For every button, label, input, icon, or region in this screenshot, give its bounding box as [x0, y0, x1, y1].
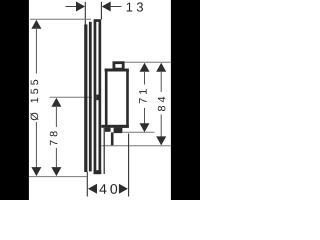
- dim 71 lower segment: [144, 108, 146, 125]
- ext line plate top: [30, 18, 91, 20]
- left black panel: [0, 0, 29, 200]
- housing bottom cap: [94, 170, 102, 174]
- dim 40 tick right: [128, 134, 130, 197]
- carrier sleeve: [89, 22, 92, 172]
- valve box bottom band: [101, 125, 129, 128]
- dim 13 arrow right: [76, 2, 85, 12]
- label 71: [139, 89, 146, 103]
- outlet notch white: [111, 128, 114, 133]
- label O155: [30, 80, 38, 121]
- dim O155 lower segment: [35, 122, 37, 169]
- right black panel: [171, 0, 200, 200]
- dim 71 upper segment: [144, 71, 146, 85]
- dim 84 down arrow: [156, 136, 166, 145]
- label 78: [50, 131, 58, 145]
- dim O155 upper segment: [35, 27, 37, 74]
- outlet block right: [114, 128, 123, 133]
- ext line right top: [125, 61, 171, 63]
- label 84: [158, 97, 166, 111]
- dim 13 line left: [66, 6, 78, 8]
- dim 71 down arrow: [140, 123, 150, 132]
- dim 84 upper segment: [160, 71, 162, 92]
- dim 13 line right: [109, 6, 121, 8]
- outlet stub left: [105, 128, 111, 132]
- back pipe line: [103, 128, 105, 174]
- dim 78 up arrow: [51, 98, 61, 107]
- dim 40 arrow left: [88, 184, 97, 194]
- dim 40 arrow right: [119, 184, 128, 194]
- dim 78 lower segment: [55, 148, 57, 169]
- dim 84 up arrow: [156, 63, 166, 72]
- outlet pipe strip: [111, 132, 114, 145]
- label 40: [99, 184, 117, 194]
- ext line center axis: [50, 96, 93, 98]
- dim 13 extension line A: [84, 2, 86, 25]
- dim 78 down arrow: [51, 167, 61, 176]
- dim 13 arrow left: [102, 2, 111, 12]
- spindle fill: [96, 95, 98, 101]
- dim O155 down arrow: [31, 167, 41, 176]
- dim 40 tick left: [86, 172, 88, 197]
- plate bar: [84, 24, 87, 172]
- button: [114, 63, 123, 69]
- dim 84 lower segment: [160, 115, 162, 139]
- valve box top band: [105, 69, 129, 72]
- label 13: [127, 2, 143, 11]
- ext line plate bottom: [29, 176, 87, 178]
- ext line 71 bottom: [123, 131, 155, 133]
- dim 71 up arrow: [140, 63, 150, 72]
- ext line 84 bottom: [102, 145, 171, 147]
- dim 78 upper segment: [55, 105, 57, 127]
- dim O155 up arrow: [31, 20, 41, 29]
- valve box: [106, 70, 127, 127]
- housing shell: [95, 21, 100, 173]
- dim 13 extension line B: [100, 2, 102, 20]
